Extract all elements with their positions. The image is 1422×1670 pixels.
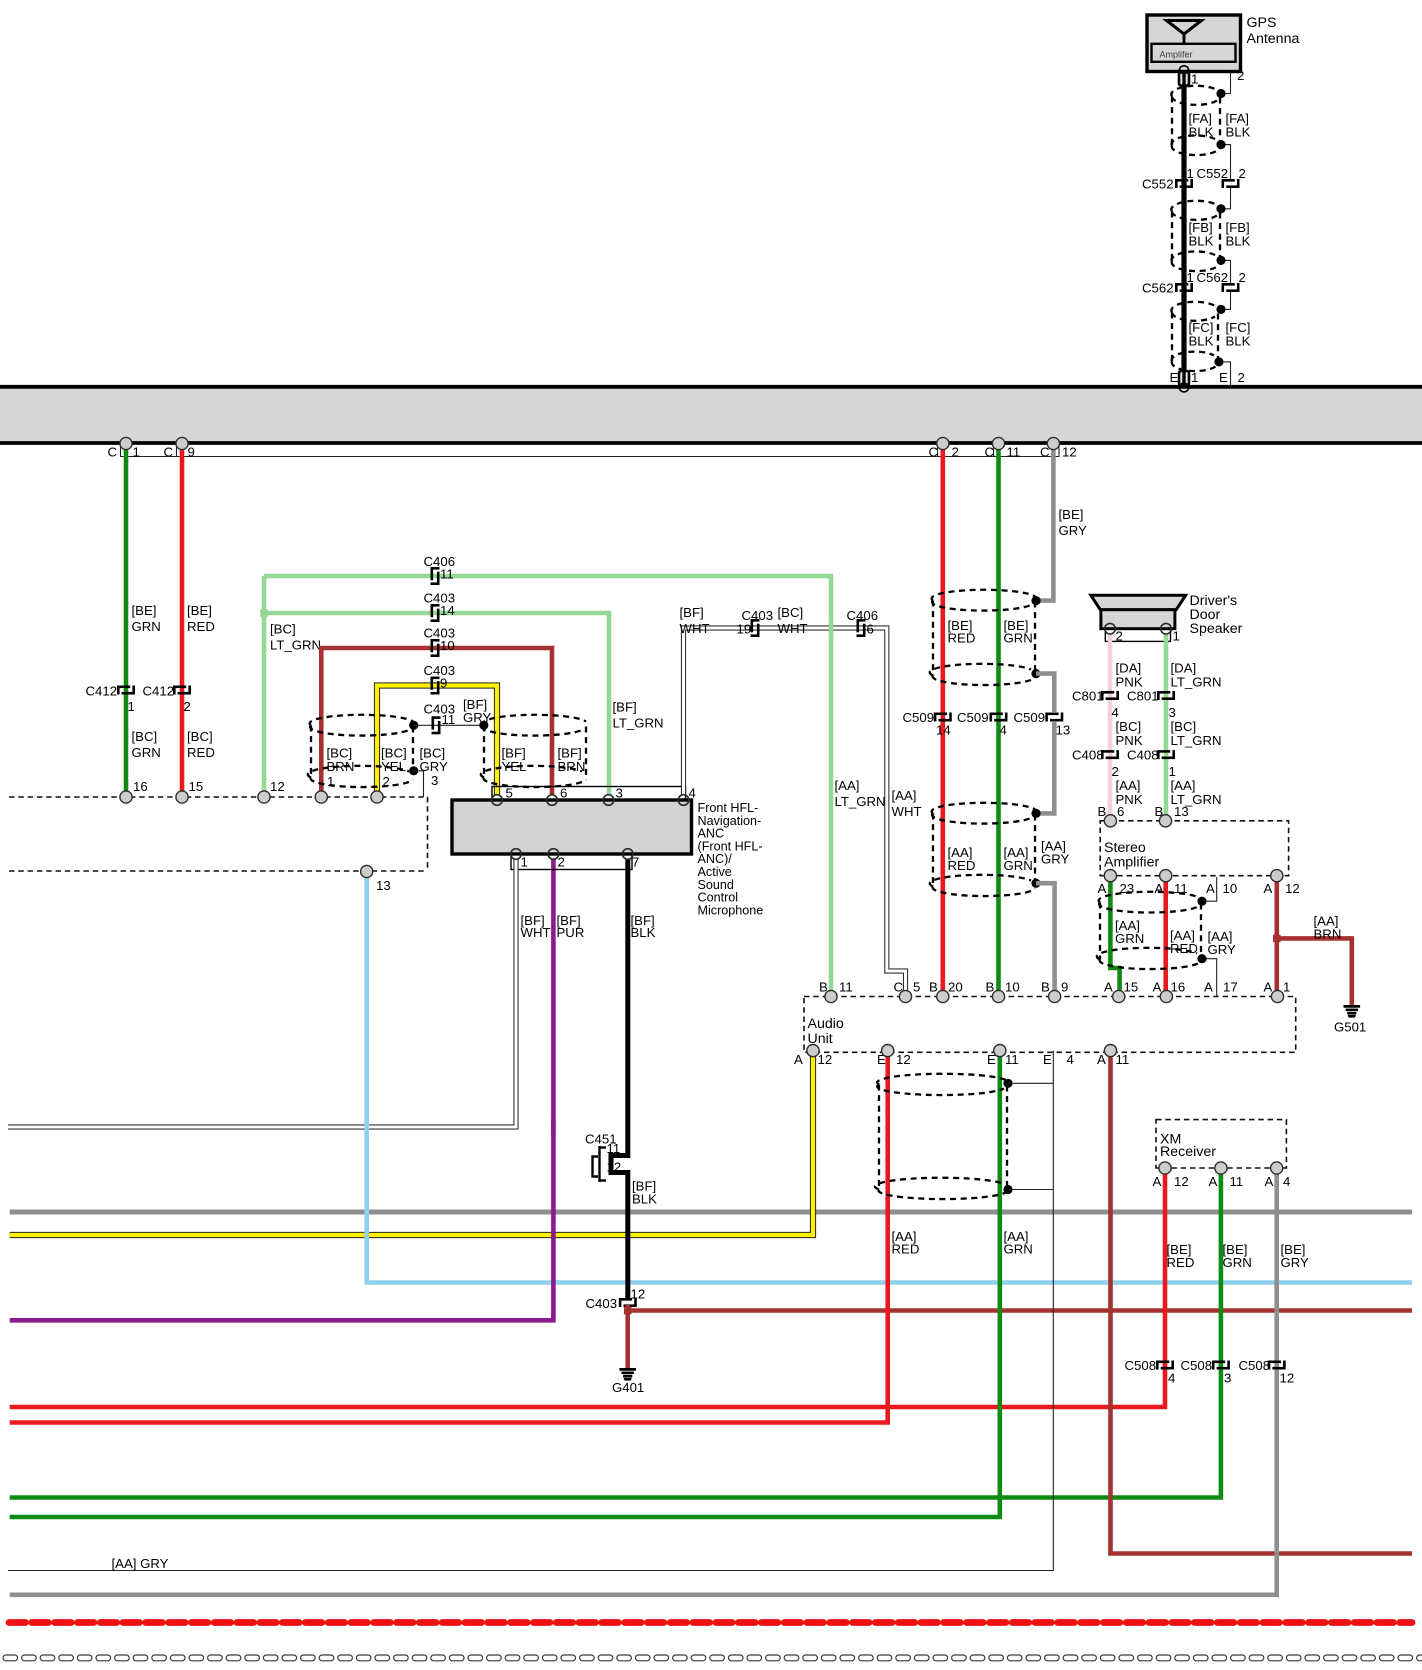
node band C9 <box>176 437 188 449</box>
node audio A16 <box>1160 990 1172 1002</box>
svg-text:[BC]: [BC] <box>187 729 213 744</box>
svg-text:10: 10 <box>1005 980 1020 995</box>
wire [BE] GRY band C12 upper <box>1036 444 1053 601</box>
svg-text:[BC]: [BC] <box>132 729 158 744</box>
svg-text:GRY: GRY <box>1041 852 1070 867</box>
svg-text:GRN: GRN <box>1004 631 1033 646</box>
oval chain separator <box>3 1655 1422 1661</box>
svg-text:GRN: GRN <box>132 745 161 760</box>
wire [AA] BRN branch to ground G501 <box>1277 938 1352 1005</box>
connector C509 pin 14 <box>934 713 951 722</box>
svg-text:C801: C801 <box>1072 689 1104 704</box>
svg-text:11: 11 <box>607 1141 621 1156</box>
svg-text:[BF]: [BF] <box>613 700 637 715</box>
svg-text:C552: C552 <box>1197 166 1229 181</box>
svg-text:LT_GRN: LT_GRN <box>1171 675 1222 690</box>
svg-text:Amplifer: Amplifer <box>1160 50 1193 60</box>
node audio C5 <box>899 990 911 1002</box>
node pin 16 <box>120 791 132 803</box>
shield drain dot BC bottom <box>409 766 418 775</box>
svg-text:13: 13 <box>376 878 391 893</box>
svg-text:2: 2 <box>952 445 959 460</box>
tick pin C9 <box>176 444 178 457</box>
wire [AA] GRY shield drain from Audio Unit E4 <box>8 1051 1053 1571</box>
connector C552 pin 1 <box>1175 179 1192 188</box>
svg-text:2: 2 <box>184 699 191 714</box>
svg-text:LT_GRN: LT_GRN <box>270 638 321 653</box>
svg-text:C509: C509 <box>957 710 989 725</box>
svg-text:1: 1 <box>1283 980 1290 995</box>
svg-text:B: B <box>986 980 995 995</box>
connector C403 pin 14 <box>431 604 440 621</box>
svg-text:WHT: WHT <box>521 925 551 940</box>
shield drain dot BC top <box>409 721 418 730</box>
shield drain dot FC bottom <box>1214 357 1223 366</box>
shield drain dot bottom <box>1003 1185 1012 1194</box>
wire [BE]/[BC] GRN from band C1 to pin 16 <box>124 444 129 797</box>
svg-text:GRY: GRY <box>420 759 449 774</box>
node amp A12 <box>1271 870 1283 882</box>
svg-text:12: 12 <box>1285 881 1300 896</box>
svg-text:9: 9 <box>188 445 195 460</box>
svg-text:GRN: GRN <box>1004 858 1033 873</box>
svg-text:2: 2 <box>1237 68 1244 83</box>
shield [AA] RED/GRN pair below Audio <box>875 1074 1007 1199</box>
svg-text:11: 11 <box>1116 1052 1130 1067</box>
wire [BF] WHT microphone pin 1 <box>8 860 516 1128</box>
svg-text:[BC]: [BC] <box>1116 719 1142 734</box>
node mic pin 6 <box>547 795 558 806</box>
wire [BE]/[BC] RED from band C9 to pin 15 <box>180 444 185 797</box>
wire [BC]/[BF] YEL pin 2 to microphone pin 5 via C403-9 <box>377 686 497 798</box>
wire shield drain to pin 3 <box>414 771 424 797</box>
wire C552-2 to FB shield <box>1222 188 1231 209</box>
svg-text:12: 12 <box>1062 445 1077 460</box>
svg-text:B: B <box>1041 980 1050 995</box>
dashed module bottom edge <box>9 870 427 872</box>
shield [FC] <box>1171 302 1218 371</box>
svg-text:E: E <box>1043 1052 1052 1067</box>
svg-text:1: 1 <box>521 855 528 870</box>
svg-text:WHT: WHT <box>680 621 710 636</box>
red dashed separator line <box>9 1619 1412 1626</box>
svg-text:BLK: BLK <box>1226 234 1251 249</box>
svg-text:A: A <box>1206 881 1215 896</box>
wire [AA] RED bus to Audio Unit E12 <box>10 1051 888 1423</box>
wire FC shield to band E2 <box>1219 362 1231 386</box>
connector bracket under band <box>121 444 1060 457</box>
wire [AA] BRN horizontal from C403-12 <box>628 1308 1412 1313</box>
svg-text:11: 11 <box>442 712 456 727</box>
wire [BE] RED bus to XM Receiver A12 <box>10 1168 1165 1407</box>
svg-text:6: 6 <box>1117 804 1124 819</box>
wire [AA] GRY bus <box>10 1210 1412 1215</box>
svg-text:12: 12 <box>1280 1371 1295 1386</box>
junction LT_GRN <box>260 609 268 617</box>
connector C403 pin 11 (shield) <box>432 717 441 734</box>
svg-text:4: 4 <box>689 786 696 801</box>
node mic pin 7 <box>623 849 634 860</box>
svg-text:A: A <box>1265 1174 1274 1189</box>
ground G401 symbol <box>619 1369 636 1380</box>
node pin 12 <box>258 791 270 803</box>
svg-text:C508: C508 <box>1125 1358 1157 1373</box>
wire [BC]/[AA] LT_GRN via C406-11 to Audio B11 <box>264 576 831 997</box>
svg-text:G401: G401 <box>612 1380 644 1395</box>
svg-text:Microphone: Microphone <box>698 903 764 917</box>
svg-text:Speaker: Speaker <box>1190 621 1243 637</box>
svg-text:13: 13 <box>1174 804 1189 819</box>
node XM A12 <box>1159 1162 1171 1174</box>
wire [BC]/[BF] LT_GRN via C403-14 to microphone pin 3 <box>264 613 609 795</box>
svg-text:17: 17 <box>1223 980 1238 995</box>
svg-text:16: 16 <box>1171 980 1186 995</box>
svg-text:9: 9 <box>1061 980 1068 995</box>
svg-text:RED: RED <box>948 858 976 873</box>
GPS Antenna unit <box>1147 15 1241 72</box>
tick pin C2 <box>937 444 939 457</box>
svg-text:A: A <box>1098 881 1107 896</box>
svg-text:6: 6 <box>560 786 567 801</box>
svg-text:GRN: GRN <box>132 619 161 634</box>
wire pin 2 shield lead upper <box>1222 72 1231 94</box>
svg-text:[AA]: [AA] <box>1171 778 1196 793</box>
connector C408 pin 2 <box>1101 750 1118 759</box>
node pin 13 <box>361 865 373 877</box>
svg-text:12: 12 <box>896 1052 911 1067</box>
shield drain dot bottom <box>1031 669 1040 678</box>
svg-text:BLK: BLK <box>632 1192 657 1207</box>
svg-text:[DA]: [DA] <box>1171 661 1197 676</box>
svg-text:4: 4 <box>1283 1174 1290 1189</box>
svg-text:GRY: GRY <box>1059 523 1088 538</box>
svg-text:11: 11 <box>839 980 853 995</box>
svg-text:C412: C412 <box>143 684 175 699</box>
node band C12 <box>1047 437 1059 449</box>
svg-text:19: 19 <box>737 622 752 637</box>
svg-text:11: 11 <box>440 567 454 582</box>
node speaker pin 1 <box>1161 623 1172 634</box>
svg-text:GRN: GRN <box>1223 1255 1252 1270</box>
svg-text:10: 10 <box>1223 881 1238 896</box>
svg-text:C562: C562 <box>1197 270 1229 285</box>
wire [DA]/[BC]/[AA] LT_GRN speaker pin 1 to Stereo Amp B13 <box>1164 634 1169 821</box>
wire [AA] LT_GRN crossing over WHT <box>829 621 834 636</box>
svg-text:RED: RED <box>187 745 215 760</box>
svg-text:C403: C403 <box>586 1296 618 1311</box>
node audio A15 <box>1113 990 1125 1002</box>
svg-text:RED: RED <box>187 619 215 634</box>
svg-text:PNK: PNK <box>1116 733 1143 748</box>
svg-text:RED: RED <box>1167 1255 1195 1270</box>
svg-text:C: C <box>164 445 174 460</box>
wire [AA] BRN Stereo A12 to Audio A1 <box>1275 876 1280 997</box>
svg-text:BLK: BLK <box>1189 334 1214 349</box>
svg-text:3: 3 <box>431 773 438 788</box>
svg-text:10: 10 <box>440 638 455 653</box>
svg-text:[BF]: [BF] <box>680 605 704 620</box>
shield [FA] <box>1171 86 1220 155</box>
wire [BE] GRY bus to XM Receiver A4 <box>10 1168 1277 1595</box>
wire shield drain to Stereo A10 <box>1202 877 1217 901</box>
shield drain dot top <box>1031 596 1040 605</box>
node band C2 <box>937 437 949 449</box>
wire shield drain stub bottom <box>1008 1189 1053 1191</box>
svg-text:C508: C508 <box>1181 1358 1213 1373</box>
svg-text:C408: C408 <box>1127 748 1159 763</box>
svg-text:1: 1 <box>1191 370 1198 385</box>
svg-text:BLK: BLK <box>1226 334 1251 349</box>
connector C412 pin 1 <box>117 686 134 695</box>
connector E pin 1 at band <box>1179 371 1189 385</box>
svg-text:LT_GRN: LT_GRN <box>1171 733 1222 748</box>
svg-text:C801: C801 <box>1127 689 1159 704</box>
node XM A11 <box>1215 1162 1227 1174</box>
wire [BC] LT_GRN vertical from pin 12 <box>262 576 267 797</box>
svg-text:12: 12 <box>631 1287 646 1302</box>
Audio Unit <box>804 997 1296 1053</box>
connector C562 pin 1 <box>1175 283 1192 292</box>
wire shield drain BC-BF link <box>414 724 484 726</box>
wire [BE] GRY to C509-13 <box>1036 674 1054 712</box>
svg-text:WHT: WHT <box>892 804 922 819</box>
wire [DA]/[BC]/[AA] PNK speaker pin 2 to Stereo Amp B6 <box>1108 634 1113 821</box>
svg-text:4: 4 <box>1000 723 1007 738</box>
node XM A4 <box>1271 1162 1283 1174</box>
node audio E12 <box>882 1045 894 1057</box>
junction BRN at A12 wire <box>1273 935 1281 943</box>
node audio A11 <box>1104 1045 1116 1057</box>
node amp A11 <box>1160 870 1172 882</box>
node pin 1 <box>315 791 327 803</box>
connector C509 pin 4 <box>990 713 1007 722</box>
connector C451 pins 11/12 <box>593 1146 607 1182</box>
wire [AA] GRY from C509-13 <box>1036 722 1054 813</box>
svg-text:Amplifier: Amplifier <box>1104 855 1159 871</box>
ground G501 symbol <box>1344 1006 1361 1017</box>
svg-text:BRN: BRN <box>1314 927 1342 942</box>
svg-text:3: 3 <box>616 786 623 801</box>
node amp B6 <box>1104 815 1116 827</box>
shield drain dot FA bottom <box>1216 140 1225 149</box>
svg-text:14: 14 <box>936 723 951 738</box>
svg-text:2: 2 <box>1239 166 1246 181</box>
wire [AA] GRN Stereo A23 to Audio A15 <box>1110 876 1119 997</box>
svg-text:16: 16 <box>133 779 148 794</box>
svg-text:C509: C509 <box>1014 710 1046 725</box>
svg-text:A: A <box>1264 881 1273 896</box>
svg-text:1: 1 <box>1173 629 1180 644</box>
svg-text:GRY: GRY <box>1281 1255 1310 1270</box>
svg-text:[BC]: [BC] <box>270 622 296 637</box>
svg-text:20: 20 <box>948 980 963 995</box>
svg-text:BRN: BRN <box>558 759 586 774</box>
connector C403 pin 10 <box>431 639 440 656</box>
connector C408 pin 1 <box>1157 750 1174 759</box>
svg-text:[DA]: [DA] <box>1116 661 1142 676</box>
wire [AA] GRN bus to Audio Unit E11 <box>10 1051 1000 1517</box>
node band C1 <box>120 437 132 449</box>
shield drain dot BF <box>479 721 488 730</box>
shield [FB] <box>1171 201 1220 271</box>
shield drain dot FB top <box>1216 204 1225 213</box>
svg-text:12: 12 <box>1174 1174 1189 1189</box>
wire [BF] BLK microphone pin 7 to C403-12 <box>611 860 628 1299</box>
svg-text:[BE]: [BE] <box>1059 507 1084 522</box>
svg-text:A: A <box>1104 980 1113 995</box>
svg-text:GRN: GRN <box>1115 931 1144 946</box>
svg-text:GPS: GPS <box>1247 15 1277 31</box>
svg-text:11: 11 <box>1230 1174 1244 1189</box>
svg-text:PUR: PUR <box>557 925 585 940</box>
junction BRN <box>624 1307 632 1315</box>
connector C509 pin 13 <box>1046 713 1063 722</box>
wire [AA] YEL from Audio Unit A12 <box>10 1051 813 1235</box>
svg-text:B: B <box>929 980 938 995</box>
svg-text:2: 2 <box>1238 370 1245 385</box>
svg-text:1: 1 <box>1187 166 1194 181</box>
node audio E11 <box>994 1045 1006 1057</box>
svg-text:A: A <box>1153 1174 1162 1189</box>
shield [AA] RED/GRN pair <box>930 803 1035 896</box>
svg-text:11: 11 <box>1007 445 1021 460</box>
wire [AA] RED Stereo A11 to Audio A16 <box>1163 876 1168 997</box>
shield [BF] twisted pair <box>481 715 586 787</box>
svg-text:BLK: BLK <box>1189 125 1214 140</box>
svg-text:15: 15 <box>1124 980 1139 995</box>
svg-text:C408: C408 <box>1072 748 1104 763</box>
wire [BE]/[AA] RED band C2 to Audio B20 <box>940 444 945 997</box>
dashed module top edge <box>9 796 428 798</box>
node audio B11 <box>825 990 837 1002</box>
Front HFL-Navigation-ANC microphone unit <box>452 800 692 854</box>
svg-text:5: 5 <box>913 980 920 995</box>
connector C508 pin 4 <box>1156 1361 1173 1370</box>
svg-text:C509: C509 <box>903 710 935 725</box>
svg-text:5: 5 <box>506 786 513 801</box>
connector C403 pin 9 <box>431 677 440 694</box>
wire [BE]/[AA] GRN band C11 to Audio B10 <box>996 444 1001 997</box>
svg-text:[BC]: [BC] <box>1171 719 1197 734</box>
svg-text:C: C <box>108 445 118 460</box>
svg-text:1: 1 <box>133 445 140 460</box>
node mic pin 5 <box>492 795 503 806</box>
wire shield lead to C552-2 <box>1221 145 1231 179</box>
svg-text:14: 14 <box>440 603 455 618</box>
Amplifier box <box>1152 44 1236 62</box>
shield drain dot FA top <box>1216 89 1225 98</box>
shield drain dot bottom <box>1031 879 1040 888</box>
wire [BE] GRN bus to XM Receiver A11 <box>10 1168 1221 1498</box>
svg-text:Antenna: Antenna <box>1247 31 1300 47</box>
wire [BF] PUR crossing over WHT <box>551 1119 556 1135</box>
node speaker pin 2 <box>1105 623 1116 634</box>
svg-text:4: 4 <box>1168 1371 1175 1386</box>
svg-text:4: 4 <box>1067 1052 1074 1067</box>
svg-text:1: 1 <box>128 699 135 714</box>
shield drain dot top <box>1003 1079 1012 1088</box>
connector C403 pin 19 <box>751 619 760 636</box>
svg-text:1: 1 <box>1169 764 1176 779</box>
node mic pin 2 <box>548 849 559 860</box>
svg-text:1: 1 <box>327 774 334 789</box>
shield drain dot top <box>1031 809 1040 818</box>
wire [BF]/[BC]/[AA] WHT microphone pin 4 to Audio Unit C5 <box>684 628 906 997</box>
wire shield drain stub top <box>1008 1082 1053 1084</box>
node pin 15 <box>176 791 188 803</box>
svg-text:1: 1 <box>1191 72 1198 87</box>
svg-text:[BE]: [BE] <box>187 603 212 618</box>
wire FB shield to C562-2 <box>1221 260 1231 283</box>
svg-text:E: E <box>1170 370 1179 385</box>
wire shield drain to Audio A17 <box>1202 959 1217 997</box>
svg-text:A: A <box>1155 881 1164 896</box>
svg-text:6: 6 <box>867 622 874 637</box>
svg-text:[BE]: [BE] <box>132 603 157 618</box>
tick pin C11 <box>993 444 995 457</box>
svg-text:BLK: BLK <box>1226 125 1251 140</box>
svg-text:12: 12 <box>270 779 285 794</box>
svg-text:BRN: BRN <box>327 759 355 774</box>
shield [AA] GRN/RED pair at amp <box>1097 892 1201 969</box>
svg-text:[AA]: [AA] <box>892 788 917 803</box>
wire [BC]/[BF] BRN pin 1 to microphone pin 6 via C403-10 <box>321 648 552 797</box>
shield drain dot top <box>1197 897 1206 906</box>
shield drain dot FC top <box>1216 305 1225 314</box>
svg-text:A: A <box>1264 980 1273 995</box>
svg-text:RED: RED <box>1170 941 1198 956</box>
wire LT_BLU from pin 13 <box>367 876 1412 1283</box>
node audio B20 <box>937 990 949 1002</box>
connector C801 pin 4 <box>1101 691 1118 700</box>
svg-text:3: 3 <box>1224 1371 1231 1386</box>
svg-text:BLK: BLK <box>631 925 656 940</box>
svg-text:RED: RED <box>948 631 976 646</box>
svg-text:A: A <box>1153 980 1162 995</box>
connector C412 pin 2 <box>173 686 190 695</box>
svg-text:GRY: GRY <box>1208 942 1237 957</box>
connector C562 pin 2 <box>1222 283 1239 292</box>
svg-text:E: E <box>1219 370 1228 385</box>
svg-text:A: A <box>1097 1052 1106 1067</box>
node audio A12 <box>807 1045 819 1057</box>
XM Receiver unit <box>1156 1120 1286 1168</box>
svg-text:9: 9 <box>440 676 447 691</box>
svg-text:3: 3 <box>1169 705 1176 720</box>
svg-text:G501: G501 <box>1334 1020 1366 1035</box>
connector C406 pin 11 <box>431 567 440 584</box>
svg-text:GRN: GRN <box>1004 1242 1033 1257</box>
svg-text:[BC]: [BC] <box>778 605 804 620</box>
svg-text:4: 4 <box>1112 705 1119 720</box>
node amp B13 <box>1159 815 1171 827</box>
node pin 2 <box>371 791 383 803</box>
svg-text:YEL: YEL <box>502 759 527 774</box>
svg-text:12: 12 <box>607 1160 622 1175</box>
node band C11 <box>992 437 1004 449</box>
svg-text:11: 11 <box>1005 1052 1019 1067</box>
wire coax [FA]/[FB]/[FC] BLK pin 1 line <box>1181 72 1186 386</box>
connector C403 pin 12 <box>619 1298 636 1307</box>
connector C406 pin 6 <box>857 619 866 636</box>
svg-text:Audio: Audio <box>808 1016 844 1032</box>
svg-text:2: 2 <box>1112 764 1119 779</box>
svg-text:1: 1 <box>1187 270 1194 285</box>
node audio B9 <box>1049 990 1061 1002</box>
svg-text:13: 13 <box>1056 723 1071 738</box>
module band (gray interconnect bar) <box>0 387 1422 442</box>
svg-text:C412: C412 <box>86 684 118 699</box>
